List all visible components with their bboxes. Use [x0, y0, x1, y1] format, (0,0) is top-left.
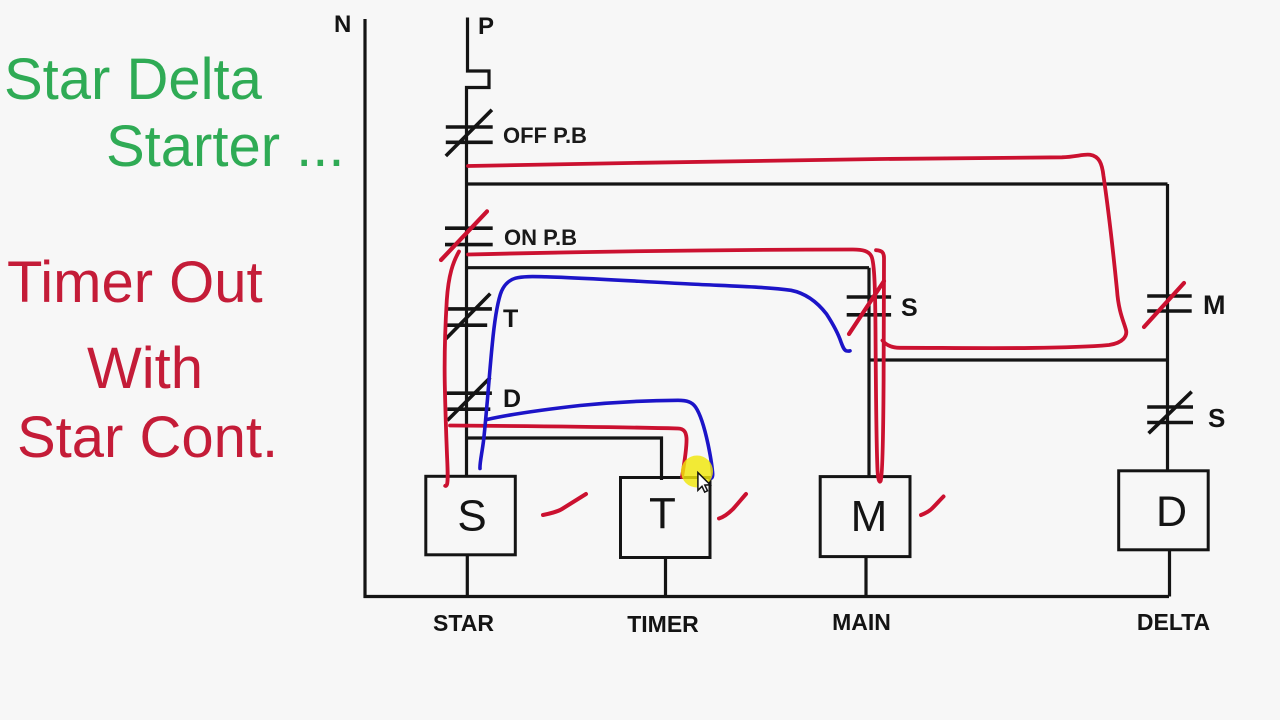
- annotation title "Timer Out With Star Cont.": [7, 250, 278, 470]
- svg-text:S: S: [901, 294, 918, 322]
- svg-text:OFF P.B: OFF P.B: [503, 123, 587, 148]
- svg-text:M: M: [1203, 290, 1226, 320]
- wire main-delta connector: [869, 358, 1168, 361]
- wire top rail (node A to delta branch): [466, 182, 1168, 185]
- contact S (NO, main branch): [847, 297, 891, 315]
- svg-text:With: With: [87, 336, 203, 401]
- annotation red stroke: top rail loop down to main-delta connector: [468, 155, 1126, 349]
- contact M (NO, delta branch): [1147, 296, 1192, 311]
- annotation red stroke to cursor (timer branch): [450, 426, 687, 478]
- svg-text:S: S: [457, 492, 486, 541]
- annotation red wavy line down left of contacts: [445, 252, 459, 486]
- wire M coil to bus: [864, 557, 867, 597]
- svg-text:P: P: [478, 13, 494, 40]
- svg-text:D: D: [503, 385, 521, 413]
- svg-text:T: T: [649, 489, 676, 538]
- annotation red check near S coil: [543, 494, 586, 515]
- svg-text:M: M: [851, 492, 888, 541]
- annotation title "Star Delta Starter ...": [4, 47, 345, 179]
- svg-text:Starter ...: Starter ...: [106, 114, 345, 179]
- bus P phase rail with fuse jog: [467, 18, 490, 478]
- annotation red check near T coil: [719, 494, 746, 519]
- pushbutton ON P.B (NO): [445, 228, 493, 244]
- wire D coil to bus: [1168, 550, 1171, 597]
- wire timer branch: [467, 438, 662, 480]
- svg-text:DELTA: DELTA: [1137, 609, 1210, 635]
- svg-text:MAIN: MAIN: [832, 609, 891, 635]
- annotation red check near M coil: [921, 497, 944, 516]
- contact D (NC delta interlock): [447, 378, 492, 421]
- mouse cursor: [698, 473, 710, 493]
- svg-text:N: N: [334, 11, 351, 38]
- wire rail 2 (to MAIN branch): [466, 266, 869, 269]
- bottom bus wire: [364, 595, 1170, 598]
- coil M box: [820, 477, 910, 557]
- contact S (NC, delta branch): [1147, 392, 1193, 434]
- svg-text:Star Delta: Star Delta: [4, 47, 263, 112]
- coil T box: [621, 478, 711, 558]
- contact T (NC timer contact): [445, 294, 492, 339]
- svg-text:Star Cont.: Star Cont.: [17, 405, 278, 470]
- coil S box: [426, 476, 516, 555]
- annotation red slash over M contact (delta branch): [1144, 283, 1184, 327]
- wire S coil to bus: [466, 555, 469, 597]
- wire DELTA branch: [1166, 184, 1169, 471]
- svg-text:Timer Out: Timer Out: [7, 250, 263, 315]
- wire MAIN branch: [867, 268, 870, 477]
- cursor highlight circle: [681, 456, 713, 488]
- svg-text:TIMER: TIMER: [627, 611, 699, 637]
- svg-text:ON P.B: ON P.B: [504, 225, 577, 250]
- annotation red slash over S contact (main branch): [849, 281, 884, 334]
- annotation blue stroke: star branch to main S contact: [480, 277, 850, 469]
- wire T coil to bus: [664, 557, 667, 597]
- annotation blue stroke: D contact to timer coil: [487, 400, 713, 478]
- coil D box: [1119, 471, 1209, 550]
- pushbutton OFF P.B (NC): [446, 110, 493, 156]
- annotation red stroke: ON P.B rail down to M coil with hairpin: [468, 249, 884, 481]
- svg-text:STAR: STAR: [433, 610, 494, 636]
- svg-text:T: T: [503, 305, 518, 333]
- svg-text:S: S: [1208, 403, 1225, 433]
- bus N neutral rail: [363, 19, 366, 598]
- annotation red slash over ON P.B: [441, 211, 487, 260]
- svg-text:D: D: [1156, 488, 1187, 536]
